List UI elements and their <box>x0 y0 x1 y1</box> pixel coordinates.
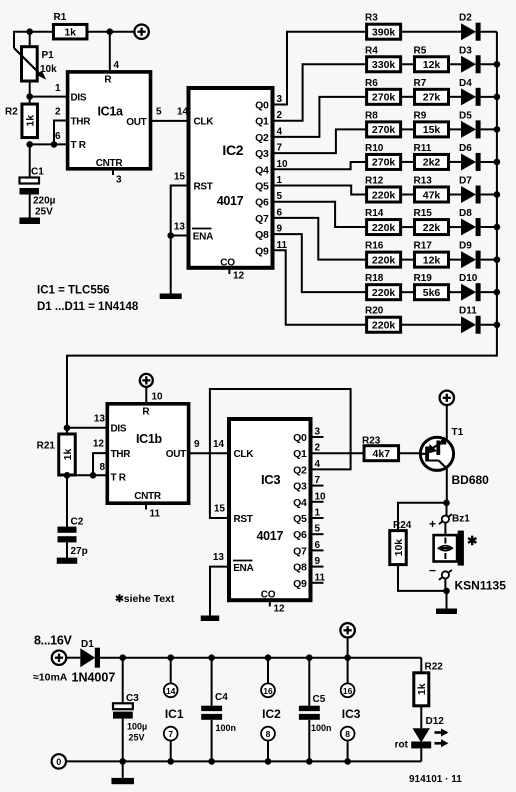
svg-text:14: 14 <box>213 439 225 450</box>
svg-text:22k: 22k <box>423 222 441 234</box>
svg-text:Q5: Q5 <box>255 181 269 193</box>
svg-text:R: R <box>104 75 112 86</box>
svg-text:Q2: Q2 <box>255 132 269 144</box>
svg-text:2k2: 2k2 <box>423 157 441 169</box>
svg-text:R8: R8 <box>365 110 378 121</box>
svg-text:+: + <box>429 517 436 531</box>
svg-text:R22: R22 <box>425 662 444 673</box>
svg-text:Q3: Q3 <box>293 481 307 493</box>
svg-text:T R: T R <box>111 473 127 484</box>
svg-text:R18: R18 <box>365 273 384 284</box>
svg-text:R16: R16 <box>365 241 384 252</box>
svg-text:7: 7 <box>277 143 283 154</box>
svg-text:11: 11 <box>277 240 288 251</box>
svg-text:OUT: OUT <box>126 117 146 128</box>
svg-text:CNTR: CNTR <box>96 158 124 169</box>
svg-text:D8: D8 <box>459 208 472 219</box>
svg-text:220k: 220k <box>372 320 396 332</box>
svg-text:Q8: Q8 <box>255 229 269 241</box>
svg-text:Q5: Q5 <box>293 513 307 525</box>
svg-text:Q9: Q9 <box>255 245 269 257</box>
svg-text:8...16V: 8...16V <box>34 634 72 648</box>
svg-text:✱siehe Text: ✱siehe Text <box>115 593 175 605</box>
svg-text:Q6: Q6 <box>293 529 307 541</box>
svg-text:Q7: Q7 <box>255 213 269 225</box>
svg-text:27p: 27p <box>71 546 88 557</box>
svg-text:R5: R5 <box>414 45 427 56</box>
svg-text:R13: R13 <box>414 176 433 187</box>
svg-text:DIS: DIS <box>71 92 87 103</box>
svg-text:IC1: IC1 <box>165 707 184 721</box>
svg-text:D6: D6 <box>459 143 472 154</box>
svg-text:Q6: Q6 <box>255 197 269 209</box>
svg-text:10: 10 <box>315 491 327 502</box>
svg-text:13: 13 <box>213 552 225 563</box>
svg-text:2: 2 <box>315 443 321 454</box>
svg-text:≈10mA: ≈10mA <box>33 672 68 684</box>
svg-text:4k7: 4k7 <box>373 448 391 460</box>
svg-text:12k: 12k <box>423 59 441 71</box>
svg-text:D7: D7 <box>459 176 472 187</box>
svg-text:R20: R20 <box>365 306 384 317</box>
svg-text:C5: C5 <box>313 694 326 705</box>
svg-text:Q0: Q0 <box>293 432 307 444</box>
svg-text:220k: 220k <box>372 189 396 201</box>
svg-text:15: 15 <box>174 172 186 183</box>
svg-text:IC3: IC3 <box>261 472 280 487</box>
svg-text:R17: R17 <box>414 241 433 252</box>
svg-text:8: 8 <box>99 462 105 473</box>
svg-text:13: 13 <box>94 414 106 425</box>
svg-text:8: 8 <box>266 729 271 739</box>
svg-text:12: 12 <box>274 604 286 615</box>
svg-text:7: 7 <box>315 475 321 486</box>
svg-text:DIS: DIS <box>111 424 127 435</box>
svg-text:IC1 = TLC556: IC1 = TLC556 <box>37 285 110 297</box>
svg-text:5: 5 <box>277 191 283 202</box>
svg-text:12k: 12k <box>423 254 441 266</box>
svg-text:D5: D5 <box>459 110 472 121</box>
svg-text:2: 2 <box>277 110 283 121</box>
svg-text:R1: R1 <box>54 12 67 23</box>
svg-text:R15: R15 <box>414 208 433 219</box>
svg-text:220µ: 220µ <box>33 196 56 207</box>
svg-text:914101 · 11: 914101 · 11 <box>409 774 462 785</box>
svg-text:Q0: Q0 <box>255 100 269 112</box>
svg-text:IC3: IC3 <box>342 707 361 721</box>
svg-text:220k: 220k <box>372 287 396 299</box>
svg-text:1k: 1k <box>25 115 37 127</box>
svg-text:1N4007: 1N4007 <box>72 671 116 685</box>
svg-text:5k6: 5k6 <box>423 287 441 299</box>
svg-text:BD680: BD680 <box>452 473 490 487</box>
svg-text:C3: C3 <box>126 693 139 704</box>
svg-text:R23: R23 <box>362 436 381 447</box>
svg-text:Q2: Q2 <box>293 464 307 476</box>
svg-text:4: 4 <box>277 126 283 137</box>
svg-text:CNTR: CNTR <box>134 491 162 502</box>
svg-text:P1: P1 <box>42 50 55 61</box>
svg-text:9: 9 <box>277 224 283 235</box>
svg-text:11: 11 <box>315 572 326 583</box>
svg-text:R10: R10 <box>365 143 384 154</box>
svg-text:T1: T1 <box>452 427 464 438</box>
svg-text:1: 1 <box>55 83 61 94</box>
svg-text:1: 1 <box>315 508 321 519</box>
svg-text:100µ: 100µ <box>127 722 147 732</box>
svg-text:5: 5 <box>315 524 321 535</box>
svg-text:−: − <box>429 564 436 578</box>
svg-text:3: 3 <box>277 94 283 105</box>
svg-text:RST: RST <box>234 514 253 525</box>
svg-text:1k: 1k <box>62 449 74 461</box>
svg-text:R24: R24 <box>393 520 412 531</box>
svg-text:IC1b: IC1b <box>136 432 163 446</box>
svg-text:100n: 100n <box>216 723 237 733</box>
svg-text:11: 11 <box>150 509 161 520</box>
svg-text:D1: D1 <box>81 639 94 650</box>
svg-text:D2: D2 <box>459 13 472 24</box>
svg-text:8: 8 <box>345 729 350 739</box>
svg-text:270k: 270k <box>372 157 396 169</box>
svg-text:47k: 47k <box>423 189 441 201</box>
svg-text:R4: R4 <box>365 45 378 56</box>
svg-text:13: 13 <box>174 222 186 233</box>
svg-text:220k: 220k <box>372 254 396 266</box>
svg-text:12: 12 <box>233 271 245 282</box>
svg-text:3: 3 <box>116 175 122 186</box>
svg-text:R9: R9 <box>414 110 427 121</box>
svg-text:R21: R21 <box>37 441 56 452</box>
svg-text:R19: R19 <box>414 273 433 284</box>
svg-text:R: R <box>142 407 150 418</box>
svg-text:THR: THR <box>111 449 132 460</box>
svg-text:10: 10 <box>152 392 164 403</box>
svg-text:R11: R11 <box>414 143 432 154</box>
svg-text:D3: D3 <box>459 45 472 56</box>
svg-text:D12: D12 <box>426 716 445 727</box>
svg-text:10k: 10k <box>393 539 405 557</box>
svg-text:4: 4 <box>315 459 321 470</box>
svg-text:CO: CO <box>261 590 276 601</box>
svg-text:D4: D4 <box>459 78 472 89</box>
svg-text:1k: 1k <box>416 683 428 695</box>
svg-text:D9: D9 <box>459 241 472 252</box>
svg-text:6: 6 <box>55 131 61 142</box>
svg-text:220k: 220k <box>372 222 396 234</box>
svg-text:R14: R14 <box>365 208 384 219</box>
svg-text:IC2: IC2 <box>222 142 243 158</box>
svg-text:9: 9 <box>194 439 200 450</box>
svg-text:D1 ...D11 = 1N4148: D1 ...D11 = 1N4148 <box>37 301 139 313</box>
svg-text:15: 15 <box>214 504 226 515</box>
svg-text:R6: R6 <box>365 78 378 89</box>
svg-text:✱: ✱ <box>467 534 478 548</box>
svg-text:25V: 25V <box>35 207 53 218</box>
svg-text:10k: 10k <box>40 64 57 75</box>
svg-text:CLK: CLK <box>194 117 215 128</box>
svg-text:C4: C4 <box>215 692 228 703</box>
svg-text:2: 2 <box>55 107 61 118</box>
svg-text:Q7: Q7 <box>293 545 307 557</box>
svg-text:12: 12 <box>93 439 105 450</box>
svg-text:4017: 4017 <box>257 529 284 543</box>
svg-text:D10: D10 <box>459 273 478 284</box>
svg-text:D11: D11 <box>459 306 477 317</box>
svg-text:270k: 270k <box>372 124 396 136</box>
svg-text:CO: CO <box>220 258 235 269</box>
svg-text:390k: 390k <box>372 27 396 39</box>
svg-text:16: 16 <box>343 686 353 696</box>
svg-text:5: 5 <box>156 107 162 118</box>
svg-text:Bz1: Bz1 <box>452 514 470 525</box>
svg-text:Q1: Q1 <box>293 448 307 460</box>
svg-text:270k: 270k <box>372 92 396 104</box>
svg-text:rot: rot <box>395 740 409 751</box>
svg-text:10: 10 <box>277 159 289 170</box>
svg-text:RST: RST <box>194 181 213 192</box>
svg-text:25V: 25V <box>129 733 145 743</box>
svg-text:1: 1 <box>277 175 283 186</box>
svg-text:Q8: Q8 <box>293 562 307 574</box>
svg-text:3: 3 <box>315 427 321 438</box>
svg-text:0: 0 <box>56 757 61 767</box>
svg-text:Q4: Q4 <box>255 164 269 176</box>
svg-text:27k: 27k <box>423 92 441 104</box>
svg-text:Q9: Q9 <box>293 578 307 590</box>
svg-text:6: 6 <box>277 207 283 218</box>
svg-text:KSN1135: KSN1135 <box>455 579 507 593</box>
svg-text:100n: 100n <box>311 723 332 733</box>
svg-text:ENA: ENA <box>193 231 213 242</box>
svg-text:C1: C1 <box>31 167 44 178</box>
svg-text:Q3: Q3 <box>255 148 269 160</box>
svg-text:IC2: IC2 <box>262 707 281 721</box>
svg-text:330k: 330k <box>372 59 396 71</box>
svg-text:14: 14 <box>166 686 176 696</box>
svg-text:OUT: OUT <box>166 449 186 460</box>
svg-text:C2: C2 <box>71 517 84 528</box>
svg-text:15k: 15k <box>423 124 441 136</box>
svg-text:IC1a: IC1a <box>98 105 125 119</box>
svg-text:4: 4 <box>114 60 120 71</box>
svg-text:Q4: Q4 <box>293 497 307 509</box>
svg-text:16: 16 <box>263 686 273 696</box>
svg-text:T R: T R <box>71 140 87 151</box>
svg-text:ENA: ENA <box>233 563 253 574</box>
svg-text:R7: R7 <box>414 78 427 89</box>
svg-text:7: 7 <box>168 729 173 739</box>
svg-text:9: 9 <box>315 556 321 567</box>
svg-text:R12: R12 <box>365 176 384 187</box>
svg-text:CLK: CLK <box>234 449 255 460</box>
svg-text:4017: 4017 <box>217 194 244 208</box>
svg-text:R3: R3 <box>365 13 378 24</box>
svg-text:1k: 1k <box>64 27 76 39</box>
svg-text:R2: R2 <box>5 107 18 118</box>
svg-text:Q1: Q1 <box>255 116 269 128</box>
svg-text:THR: THR <box>71 116 92 127</box>
svg-text:6: 6 <box>315 540 321 551</box>
